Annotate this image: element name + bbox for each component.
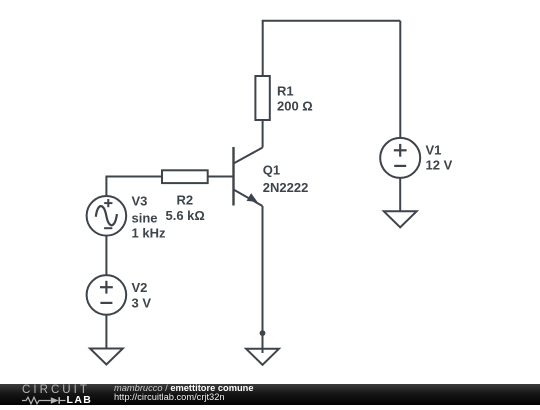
resistor R2 — [162, 170, 208, 183]
ground (below emitter) — [246, 349, 279, 365]
svg-text:2N2222: 2N2222 — [263, 180, 309, 195]
CircuitLab logo — [22, 385, 106, 404]
svg-text:1 kHz: 1 kHz — [132, 226, 166, 241]
wire V3 to R2 — [106, 177, 162, 197]
svg-text:5.6 kΩ: 5.6 kΩ — [166, 208, 205, 223]
svg-text:Q1: Q1 — [263, 163, 280, 178]
svg-text:V2: V2 — [132, 280, 148, 295]
svg-text:200 Ω: 200 Ω — [277, 99, 313, 114]
wire V1 to ground — [399, 178, 401, 211]
footer bar — [0, 384, 540, 405]
node junction dot — [260, 330, 266, 336]
wire top rail to R1 — [262, 21, 264, 76]
voltage source V2 — [87, 275, 127, 315]
logo waveform — [22, 397, 51, 404]
logo diode — [51, 397, 59, 404]
svg-text:sine: sine — [132, 211, 158, 226]
voltage source V1 — [380, 138, 420, 178]
wire R1 to Q1 collector — [262, 120, 264, 148]
svg-text:3 V: 3 V — [132, 296, 152, 311]
svg-text:R1: R1 — [277, 84, 294, 99]
wire V3 to V2 — [105, 236, 107, 276]
wire V2 to ground — [105, 315, 107, 349]
voltage source V3 — [87, 196, 127, 236]
svg-text:V3: V3 — [132, 194, 148, 209]
transistor Q1 — [234, 147, 263, 206]
wire base to Q1 — [208, 176, 234, 178]
resistor R1 — [255, 76, 269, 120]
ground (below V2) — [90, 349, 123, 365]
svg-text:V1: V1 — [426, 143, 442, 158]
ground (below V1) — [384, 211, 417, 227]
wire Q1 emitter down — [262, 206, 264, 353]
wire top rail to V1 — [399, 21, 401, 138]
logo LAB text — [67, 395, 93, 405]
svg-text:12 V: 12 V — [426, 158, 453, 173]
footer url — [114, 393, 225, 403]
footer byline — [114, 384, 254, 394]
svg-text:R2: R2 — [177, 193, 194, 208]
wire top rail — [262, 20, 401, 22]
